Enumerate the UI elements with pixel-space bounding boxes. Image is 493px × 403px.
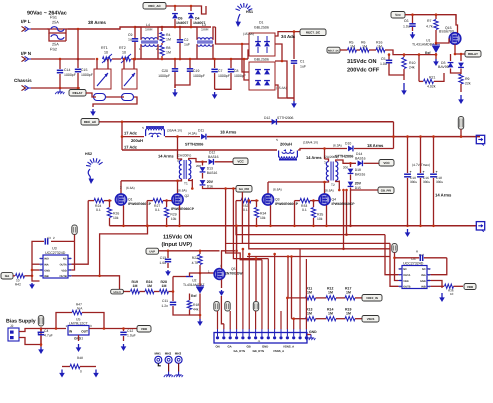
- svg-text:14 Arms: 14 Arms: [306, 155, 322, 160]
- wire AC to bridge2: [242, 44, 249, 72]
- resistor R5 1M: [340, 49, 348, 51]
- wire L line top rail: [68, 27, 211, 29]
- svg-text:BAS16: BAS16: [355, 157, 366, 161]
- wire N to filter: [131, 58, 137, 60]
- wire U5 out: [89, 328, 137, 330]
- svg-text:I/P L: I/P L: [21, 19, 31, 24]
- net label GB_PRI: [378, 187, 394, 194]
- svg-text:38 Arms: 38 Arms: [88, 20, 106, 25]
- wire L2 to D10: [298, 149, 347, 151]
- wire U3 GND pin: [32, 269, 40, 271]
- pill jumper mid2: [225, 302, 230, 312]
- svg-text:200uH: 200uH: [280, 141, 292, 146]
- svg-text:+: +: [423, 170, 425, 174]
- svg-text:(2A/200V): (2A/200V): [177, 154, 191, 158]
- pill jumper mid1: [214, 302, 219, 312]
- wire Q5 drain: [222, 251, 236, 269]
- svg-text:1M: 1M: [166, 51, 171, 55]
- svg-text:0: 0: [80, 370, 82, 374]
- diode D15b BAS16: [349, 162, 352, 165]
- capacitor C4 4.7uF: [40, 329, 42, 332]
- svg-text:T1: T1: [184, 182, 188, 186]
- svg-text:J2: J2: [10, 324, 14, 328]
- wire to U5 IN: [41, 328, 66, 330]
- wire REC_AC top link: [122, 121, 394, 123]
- ground U3 input arrow: [31, 283, 33, 286]
- svg-text:+: +: [436, 170, 438, 174]
- resistor R8 1M: [161, 43, 163, 45]
- net label REC_AC: [81, 119, 99, 126]
- relay coil K1 right: [122, 94, 134, 101]
- wire Q15 source to RELAY: [455, 44, 465, 54]
- wire GB_PRI tap to gate feed: [346, 190, 348, 235]
- svg-text:C1: C1: [300, 60, 305, 64]
- wire divider to U1: [385, 50, 432, 55]
- svg-text:(6.3A): (6.3A): [333, 144, 342, 148]
- wire Q5 source gnd: [221, 279, 223, 288]
- svg-text:MH1: MH1: [155, 352, 162, 356]
- wire web v291 to R13 row: [291, 257, 293, 319]
- ground U5 GND: [78, 335, 80, 341]
- wire D10 to bus: [354, 148, 394, 150]
- svg-text:BAV99: BAV99: [438, 65, 449, 69]
- svg-text:UVLO: UVLO: [113, 291, 120, 294]
- svg-text:Q1: Q1: [128, 198, 133, 202]
- svg-text:VDD: VDD: [467, 285, 474, 289]
- svg-text:OUTA: OUTA: [60, 264, 67, 267]
- resistor R29 10k: [165, 199, 168, 202]
- wire node A down to T1: [177, 137, 179, 159]
- svg-text:MH2: MH2: [165, 352, 172, 356]
- svg-text:L4: L4: [146, 23, 150, 27]
- svg-text:17 Adc: 17 Adc: [124, 131, 138, 136]
- svg-text:1M: 1M: [346, 312, 351, 316]
- svg-text:INA: INA: [44, 264, 49, 267]
- svg-text:18 Arms: 18 Arms: [220, 130, 237, 135]
- svg-text:0.1: 0.1: [243, 208, 248, 212]
- wire GB_PRI tap to bus: [350, 190, 352, 226]
- svg-text:1M: 1M: [307, 312, 312, 316]
- svg-text:R8: R8: [166, 46, 171, 50]
- svg-text:D12: D12: [264, 116, 270, 120]
- svg-text:1000pF: 1000pF: [64, 73, 76, 77]
- svg-text:HS1: HS1: [246, 10, 253, 14]
- svg-text:VSNS_A: VSNS_A: [273, 349, 284, 353]
- ground J1: [307, 334, 311, 336]
- wire U3 OUTB: [72, 276, 120, 290]
- svg-text:STTH2006: STTH2006: [185, 143, 203, 147]
- svg-text:GB_RTN: GB_RTN: [253, 349, 265, 353]
- wire U3 VDD pin: [72, 241, 75, 270]
- svg-text:R48: R48: [77, 356, 83, 360]
- wire T1 to Q2 drain: [177, 181, 179, 194]
- svg-text:RELAY: RELAY: [468, 52, 478, 56]
- connector J1: [214, 333, 307, 344]
- capacitor C18 330u: [433, 137, 435, 173]
- svg-text:20V: 20V: [207, 180, 214, 184]
- ground C7 C8: [214, 92, 216, 96]
- svg-text:34 Adc: 34 Adc: [281, 34, 296, 39]
- svg-text:44k: 44k: [193, 308, 199, 312]
- svg-text:200uH: 200uH: [131, 138, 143, 143]
- wire L junction vertical: [77, 29, 79, 59]
- svg-text:GND: GND: [44, 269, 50, 272]
- ground C1 PGND arrow: [293, 101, 295, 105]
- svg-text:OUT: OUT: [81, 330, 88, 334]
- net label VCC A: [233, 158, 248, 165]
- relay contact K1a: [94, 69, 111, 89]
- svg-text:UVP: UVP: [149, 250, 155, 254]
- wire bridge outputs join: [275, 44, 282, 61]
- svg-text:1M: 1M: [346, 291, 351, 295]
- svg-text:D12: D12: [209, 151, 215, 155]
- svg-text:200Vdc OFF: 200Vdc OFF: [347, 67, 380, 74]
- svg-text:18 Arms: 18 Arms: [367, 143, 384, 148]
- svg-text:NC: NC: [422, 268, 426, 271]
- svg-text:C12: C12: [127, 329, 133, 333]
- resistor R35 10k: [312, 199, 315, 202]
- wire J2 out: [19, 329, 41, 332]
- net label PRI_AC: [143, 3, 166, 10]
- net label VDD bias: [137, 326, 151, 333]
- pill jumper mid3: [253, 302, 258, 312]
- net label RECT_DC: [300, 29, 326, 36]
- wire U4 OUTB: [390, 243, 399, 286]
- wire U4 cap rail to INA: [431, 258, 447, 275]
- wire Q4 source: [326, 205, 328, 226]
- svg-text:GBL2506: GBL2506: [254, 26, 269, 30]
- svg-text:1000pF: 1000pF: [193, 74, 205, 78]
- svg-text:C15: C15: [81, 68, 87, 72]
- svg-text:Q4: Q4: [332, 198, 337, 202]
- wire bridge1 + output: [275, 32, 300, 36]
- ground PGND arrow: [407, 229, 409, 234]
- resistor R4 1M: [161, 27, 163, 31]
- ground U4 arrow: [441, 293, 443, 299]
- ground R48 left: [61, 370, 63, 375]
- capacitor C13 1.0u: [167, 251, 169, 258]
- wire U2 ref: [190, 273, 201, 277]
- svg-text:(Input UVP): (Input UVP): [162, 241, 193, 248]
- svg-text:GND: GND: [420, 280, 426, 283]
- svg-text:10: 10: [104, 51, 108, 55]
- svg-text:C4: C4: [44, 329, 48, 333]
- svg-text:4.7uF: 4.7uF: [44, 334, 53, 338]
- capacitor C19 1000pF: [189, 59, 191, 68]
- svg-text:VCC: VCC: [237, 160, 244, 164]
- svg-text:I/P N: I/P N: [21, 51, 32, 56]
- capacitor C15 1000pF: [77, 59, 79, 68]
- resistor R27 gate Q2: [147, 200, 153, 202]
- net label RECT_DC right: [327, 47, 340, 53]
- svg-text:1000pF: 1000pF: [158, 74, 170, 78]
- svg-text:INB: INB: [44, 275, 49, 278]
- svg-text:1N4007: 1N4007: [193, 21, 205, 25]
- svg-text:1M: 1M: [133, 284, 138, 288]
- net label VREF_IN: [362, 295, 382, 302]
- ground R10 arrow: [403, 83, 405, 92]
- svg-text:1M: 1M: [377, 44, 382, 48]
- capacitor C14 1000pF: [59, 59, 61, 69]
- port output minus: [476, 222, 484, 230]
- wire T2 to Q4 drain: [324, 182, 326, 194]
- power arrow relay column: [460, 95, 462, 101]
- ground U1 arrow: [435, 59, 437, 63]
- capacitor C12 1.0uF: [123, 329, 125, 332]
- resistor R34 10k: [255, 199, 258, 202]
- svg-text:1M: 1M: [162, 284, 167, 288]
- svg-text:(35A/4.1V): (35A/4.1V): [167, 129, 182, 133]
- capacitor C5 1.0u: [388, 55, 390, 60]
- svg-text:200: 200: [343, 166, 348, 170]
- inductor L1 200uH: [146, 126, 164, 128]
- svg-text:C9: C9: [128, 33, 133, 37]
- svg-text:IPW60R060CP: IPW60R060CP: [275, 202, 299, 206]
- svg-text:HS2: HS2: [85, 152, 92, 156]
- svg-text:1.2n: 1.2n: [161, 304, 168, 308]
- svg-text:OUTB: OUTB: [59, 275, 66, 278]
- ground C12: [123, 344, 125, 348]
- svg-text:1.0uF: 1.0uF: [127, 334, 136, 338]
- capacitor C21 bypass U4: [394, 253, 396, 258]
- wire I/P L to fuse: [31, 28, 47, 30]
- diode D17 clamp: [460, 54, 462, 61]
- svg-text:REC_AC: REC_AC: [148, 4, 161, 8]
- ground C4: [40, 347, 42, 351]
- net label VCC B: [379, 160, 394, 167]
- fuse FS2: [51, 35, 64, 40]
- capacitor C7 1000pF: [214, 59, 216, 68]
- wire RECT_DC node: [293, 32, 295, 59]
- svg-text:Q2: Q2: [185, 194, 190, 198]
- svg-text:C8: C8: [234, 69, 239, 73]
- wire node B down to T2: [324, 149, 326, 160]
- svg-text:VCC: VCC: [383, 161, 390, 165]
- wire gate A feed: [88, 200, 94, 202]
- capacitor C8 1000pF: [230, 59, 232, 68]
- wire Q1 drain link: [121, 180, 178, 182]
- wire UVP node: [159, 250, 220, 252]
- wire web v288 to R11 row: [287, 257, 289, 298]
- capacitor C3 bypass U3: [51, 240, 75, 242]
- svg-text:OUTA: OUTA: [403, 274, 410, 277]
- resistor R36 10: [445, 284, 454, 288]
- capacitor C16 330u: [420, 137, 422, 173]
- ground R48 right: [95, 370, 97, 375]
- zener D16 20V: [202, 173, 204, 179]
- svg-text:1M: 1M: [362, 44, 367, 48]
- svg-text:GB_PRI: GB_PRI: [381, 189, 392, 193]
- svg-text:R29: R29: [170, 213, 176, 217]
- svg-text:(6.6A): (6.6A): [178, 189, 187, 193]
- wire REC_AC bus: [99, 122, 122, 150]
- svg-text:1mH: 1mH: [201, 28, 209, 32]
- svg-text:Chassis: Chassis: [14, 78, 32, 83]
- wire gate B return: [294, 201, 296, 226]
- svg-text:R7: R7: [427, 19, 432, 23]
- svg-text:NC: NC: [63, 258, 67, 261]
- wire diode top bus: [166, 6, 206, 14]
- resistor R33 gate Q4: [295, 200, 301, 202]
- svg-text:4.7k: 4.7k: [192, 261, 199, 265]
- svg-text:C20: C20: [162, 69, 168, 73]
- svg-text:14 Arms: 14 Arms: [158, 154, 174, 159]
- wire bridge2 - output: [275, 85, 294, 98]
- svg-text:R42: R42: [15, 283, 21, 287]
- svg-text:(6.6A): (6.6A): [126, 186, 135, 190]
- capacitor C6 1.0u: [412, 15, 414, 23]
- svg-text:C11: C11: [162, 299, 168, 303]
- svg-text:0.1: 0.1: [302, 208, 307, 212]
- wire GB_PRI tap to h248: [343, 190, 345, 249]
- svg-text:1M: 1M: [350, 44, 355, 48]
- svg-text:0.1: 0.1: [96, 208, 101, 212]
- net label Vcc top right: [391, 12, 405, 19]
- svg-text:+: +: [410, 170, 412, 174]
- svg-text:Vcc: Vcc: [395, 13, 401, 17]
- svg-text:VDD: VDD: [403, 280, 409, 283]
- wire ON net to J1 pin1: [221, 296, 223, 324]
- svg-text:C7: C7: [218, 69, 223, 73]
- svg-text:R4: R4: [166, 33, 171, 37]
- svg-text:90Vac ~ 264Vac: 90Vac ~ 264Vac: [27, 11, 67, 17]
- resistor R26 10k: [108, 199, 111, 202]
- resistor R22 4.7k: [199, 251, 201, 254]
- wire GB down: [242, 192, 390, 243]
- svg-text:10k: 10k: [171, 217, 177, 221]
- svg-text:(6.6A): (6.6A): [273, 188, 282, 192]
- relay net label RELAY: [69, 90, 86, 97]
- svg-text:2N7002DW: 2N7002DW: [225, 272, 243, 276]
- ground filter caps: [174, 89, 176, 94]
- svg-text:INB: INB: [421, 286, 426, 289]
- capacitor C20 1000pF: [174, 59, 176, 68]
- pill bias: [38, 316, 43, 327]
- svg-text:10k: 10k: [113, 216, 119, 220]
- svg-text:R26: R26: [113, 212, 119, 216]
- svg-text:VREF_IN: VREF_IN: [366, 296, 378, 300]
- wire Vcc rail: [405, 15, 456, 20]
- svg-text:NC: NC: [403, 268, 407, 271]
- svg-text:330u: 330u: [436, 180, 443, 184]
- svg-text:4.7k: 4.7k: [426, 25, 433, 29]
- svg-text:VSNS_A: VSNS_A: [283, 345, 294, 349]
- jumper pill output: [458, 117, 463, 130]
- svg-text:1000pF: 1000pF: [218, 74, 230, 78]
- wire AC to bridge1: [216, 27, 250, 44]
- diode D13 BAS16: [201, 161, 204, 164]
- svg-text:MH3: MH3: [175, 352, 182, 356]
- svg-text:1M: 1M: [328, 312, 333, 316]
- wire U4 INB to VDD: [431, 285, 445, 287]
- svg-text:N/A: N/A: [77, 307, 83, 311]
- svg-text:1.0u: 1.0u: [159, 261, 166, 265]
- svg-text:IPW60R060CP: IPW60R060CP: [128, 202, 152, 206]
- svg-text:Q3: Q3: [275, 198, 280, 202]
- resistor R9 22k: [459, 74, 463, 84]
- resistor R10 24k: [403, 55, 405, 57]
- net label GA in: [1, 273, 13, 279]
- svg-text:1u: 1u: [128, 38, 132, 42]
- svg-text:VDD: VDD: [61, 269, 67, 272]
- wire VDD U3: [74, 235, 76, 242]
- wire Q1 source: [123, 205, 125, 226]
- svg-text:IPW60R060CP: IPW60R060CP: [171, 207, 195, 211]
- wire GB_RTN down: [249, 201, 390, 249]
- wire L1 to D11: [165, 136, 200, 138]
- wire web pill drop: [255, 259, 257, 302]
- svg-text:R9: R9: [465, 77, 470, 81]
- svg-text:OUTB: OUTB: [403, 286, 410, 289]
- svg-text:1M: 1M: [147, 284, 152, 288]
- resistor R18 44k: [189, 294, 191, 301]
- inductor L2 200uH: [279, 159, 297, 161]
- svg-text:C13: C13: [160, 256, 166, 260]
- svg-text:BAS16: BAS16: [208, 155, 219, 159]
- resistor R24 gate Q1: [94, 198, 104, 202]
- wire Q3 drain link: [268, 181, 325, 183]
- wire PGND source bus: [110, 225, 478, 227]
- heatsink HS1: [236, 9, 240, 11]
- svg-text:U3: U3: [52, 247, 57, 251]
- net label GA_PRI: [236, 186, 252, 193]
- svg-text:TL431AMDBZ: TL431AMDBZ: [412, 43, 435, 47]
- svg-text:RECT_DC: RECT_DC: [328, 49, 340, 52]
- svg-text:1M: 1M: [307, 291, 312, 295]
- net label RELAY right: [465, 51, 481, 58]
- svg-text:T2: T2: [331, 183, 335, 187]
- wire J1 pin risers: [217, 311, 219, 329]
- wire gate A return: [146, 201, 148, 226]
- svg-text:GB: GB: [247, 345, 251, 349]
- port output plus: [476, 135, 484, 143]
- svg-text:C14: C14: [64, 68, 70, 72]
- net label VSNS: [362, 316, 379, 323]
- svg-text:20V: 20V: [355, 182, 362, 186]
- svg-text:D11: D11: [198, 129, 204, 133]
- resistor R7 4.7k: [435, 15, 437, 19]
- resistor R6 1M: [357, 49, 361, 51]
- svg-text:S: S: [142, 126, 144, 130]
- svg-text:1000pF: 1000pF: [81, 73, 93, 77]
- svg-text:R34: R34: [260, 212, 266, 216]
- svg-text:315Vdc ON: 315Vdc ON: [347, 58, 377, 65]
- wire bypass to bus: [393, 122, 395, 149]
- zener D15 20V: [350, 175, 352, 181]
- svg-text:C6: C6: [404, 19, 409, 23]
- wire U4 GND: [431, 281, 443, 289]
- wire Q15 gate: [436, 39, 449, 44]
- svg-text:VDD: VDD: [141, 327, 148, 331]
- svg-text:0.1: 0.1: [155, 208, 160, 212]
- svg-text:GND: GND: [262, 345, 268, 349]
- wire relay coils: [86, 93, 96, 97]
- svg-text:R10: R10: [409, 61, 415, 65]
- svg-text:GBL2506: GBL2506: [254, 58, 269, 62]
- svg-text:C2: C2: [184, 38, 189, 42]
- svg-text:BAS16: BAS16: [355, 173, 366, 177]
- resistor R42 10: [13, 275, 15, 277]
- svg-text:(6.6A): (6.6A): [325, 189, 334, 193]
- wire Q5 drain riser: [236, 226, 238, 251]
- wire filter bottom rail: [137, 58, 248, 60]
- pill VDD U4: [392, 244, 397, 253]
- ground C6 arrow: [412, 32, 414, 36]
- svg-text:VSNS: VSNS: [367, 317, 375, 321]
- svg-text:1uF: 1uF: [184, 43, 190, 47]
- svg-text:1N4007: 1N4007: [176, 21, 188, 25]
- svg-text:C5: C5: [381, 57, 386, 61]
